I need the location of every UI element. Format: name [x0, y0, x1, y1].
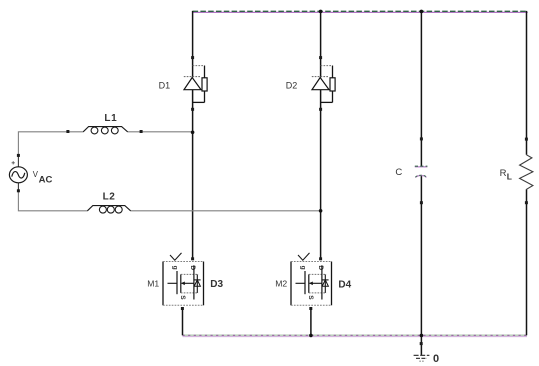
svg-text:D1: D1: [159, 81, 171, 91]
svg-text:D: D: [317, 265, 324, 270]
svg-text:C: C: [395, 167, 402, 178]
gate input mark: [298, 253, 310, 260]
diode D1: [184, 66, 207, 103]
terminal pin squares: [17, 56, 528, 345]
inductor L1: [83, 127, 127, 134]
wire D1 branch vertical bottom to M1: [192, 90, 194, 258]
mosfet symbol: [168, 282, 178, 284]
wire RL branch vertical bottom: [526, 189, 528, 335]
svg-text:g: g: [300, 266, 307, 270]
svg-text:L: L: [507, 172, 512, 182]
svg-text:R: R: [500, 168, 507, 179]
plus sign of VAC: [12, 161, 15, 164]
svg-text:M1: M1: [147, 279, 159, 289]
svg-text:S: S: [307, 295, 314, 300]
wire D1 branch vertical top: [192, 11, 194, 77]
svg-text:D3: D3: [210, 279, 223, 290]
wire D2 branch vertical top: [320, 11, 322, 77]
gate input mark: [170, 253, 182, 260]
diode D2: [312, 66, 335, 103]
ground: [414, 355, 430, 361]
wire M2 source to bottom bus: [310, 310, 312, 336]
wire D2 branch vertical bottom to M2: [320, 90, 322, 258]
svg-text:D2: D2: [286, 81, 298, 91]
svg-text:L1: L1: [104, 113, 117, 124]
wire RL branch vertical top: [526, 11, 528, 155]
wire C branch vertical bottom through bus to ground: [420, 176, 422, 355]
svg-text:D: D: [189, 265, 196, 270]
wire top DC bus (purple under green dashed): [193, 11, 528, 12]
svg-text:g: g: [172, 266, 179, 270]
resistor RL: [520, 155, 533, 190]
MOSFET M2 block: [291, 253, 332, 305]
MOSFET M1 block: [163, 253, 204, 305]
svg-text:AC: AC: [39, 175, 53, 186]
node junction dots: [191, 10, 423, 338]
body diode D3 symbol: [196, 274, 198, 293]
svg-text:0: 0: [433, 353, 439, 365]
svg-text:D4: D4: [338, 279, 351, 290]
wire VAC bottom loop to L2 line (grey): [18, 191, 320, 211]
wire bottom return bus: [183, 335, 528, 336]
body diode D4 symbol: [324, 274, 326, 293]
inductor L2: [87, 206, 130, 214]
capacitor C: [415, 166, 428, 177]
svg-text:L2: L2: [103, 191, 116, 202]
wire M1 source to bottom bus: [182, 310, 184, 336]
wire VAC pin stubs: [17, 155, 19, 167]
svg-text:M2: M2: [275, 279, 287, 289]
wire C branch vertical top: [420, 11, 422, 166]
box sides: [162, 262, 164, 306]
svg-text:S: S: [179, 295, 186, 300]
AC source VAC: [9, 167, 27, 183]
wire VAC top loop (grey): [18, 132, 192, 156]
